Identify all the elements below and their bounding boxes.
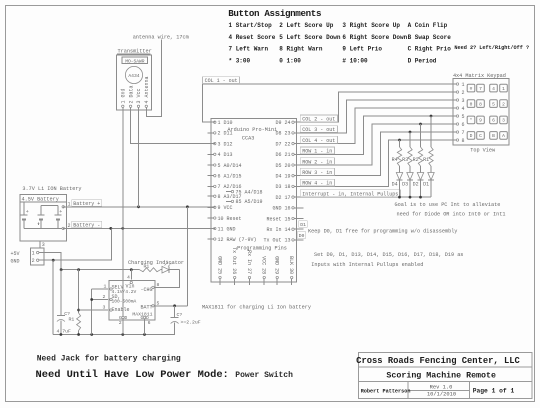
svg-text:4 Reset Score: 4 Reset Score xyxy=(229,34,276,41)
svg-text:D4 19: D4 19 xyxy=(275,174,290,180)
svg-text:2: 2 xyxy=(462,90,465,96)
svg-text:5: 5 xyxy=(462,114,465,120)
svg-text:2: 2 xyxy=(119,320,122,326)
svg-text:5: 5 xyxy=(157,300,160,306)
svg-text:1: 1 xyxy=(462,82,465,88)
svg-text:COL 2 - out: COL 2 - out xyxy=(302,117,335,123)
svg-text:BLK 30: BLK 30 xyxy=(288,256,294,274)
svg-text:8: 8 xyxy=(157,282,160,288)
svg-text:ROW 4 - in: ROW 4 - in xyxy=(302,181,332,187)
svg-text:MO-SAWR: MO-SAWR xyxy=(125,58,145,64)
svg-text:4: 4 xyxy=(127,275,130,281)
svg-text:Scoring Machine Remote: Scoring Machine Remote xyxy=(386,371,496,381)
svg-text:D2: D2 xyxy=(413,182,419,188)
svg-text:1 D10: 1 D10 xyxy=(218,120,233,126)
svg-text:Keep D0, D1 free for programmi: Keep D0, D1 free for programming w/o dis… xyxy=(308,229,457,235)
svg-text:5: 5 xyxy=(492,101,495,107)
svg-text:COL 1 - out: COL 1 - out xyxy=(205,78,238,84)
svg-text:D: D xyxy=(470,133,473,139)
svg-text:+5V: +5V xyxy=(11,251,20,257)
svg-text:Set D0, D1, D13, D14, D15, D16: Set D0, D1, D13, D14, D15, D16, D17, D18… xyxy=(314,252,463,258)
svg-text:CCA3: CCA3 xyxy=(242,136,254,142)
svg-text:2 D11: 2 D11 xyxy=(218,131,233,137)
svg-text:5 A0/D14: 5 A0/D14 xyxy=(218,163,242,169)
svg-text:Page 1 of 1: Page 1 of 1 xyxy=(473,387,515,394)
svg-text:3 Right Score Up: 3 Right Score Up xyxy=(342,22,400,29)
svg-text:A: A xyxy=(502,133,505,139)
svg-text:D2 17: D2 17 xyxy=(275,195,290,201)
svg-text:3: 3 xyxy=(103,305,106,311)
svg-text:6: 6 xyxy=(462,122,465,128)
svg-text:B: B xyxy=(492,133,495,139)
svg-text:Enable: Enable xyxy=(112,307,130,313)
svg-text:need for Diode OR into Int0 or: need for Diode OR into Int0 or Int1 xyxy=(397,212,506,218)
svg-text:D4: D4 xyxy=(392,182,398,188)
svg-text:4 D13: 4 D13 xyxy=(218,152,233,158)
svg-text:COL 3 - out: COL 3 - out xyxy=(302,127,335,133)
svg-text:D5 20: D5 20 xyxy=(275,163,290,169)
svg-text:Tx Out 13: Tx Out 13 xyxy=(263,238,290,244)
svg-text:D1: D1 xyxy=(300,222,306,228)
svg-text:C?: C? xyxy=(177,312,183,318)
svg-text:Rx In 14: Rx In 14 xyxy=(266,227,290,233)
svg-text:Rx In 27: Rx In 27 xyxy=(246,250,252,274)
svg-text:6: 6 xyxy=(148,320,151,326)
svg-text:Goal is to use PC Int to allev: Goal is to use PC Int to alleviate xyxy=(395,202,501,208)
svg-text:1 Start/Stop: 1 Start/Stop xyxy=(229,22,273,29)
svg-text:8: 8 xyxy=(479,101,482,107)
svg-text:R1: R1 xyxy=(423,157,429,163)
svg-text:* 3:00: * 3:00 xyxy=(229,57,251,64)
svg-text:C: C xyxy=(479,133,482,139)
svg-text:2: 2 xyxy=(103,294,106,300)
svg-text:GND 16: GND 16 xyxy=(272,206,290,212)
svg-text:D3: D3 xyxy=(402,182,408,188)
svg-text:Rev 1.0: Rev 1.0 xyxy=(430,385,453,391)
svg-text:6 A1/D15: 6 A1/D15 xyxy=(218,174,242,180)
svg-text:0: 0 xyxy=(470,101,473,107)
svg-text:1: 1 xyxy=(502,86,505,92)
svg-text:Need Jack for battery charging: Need Jack for battery charging xyxy=(37,354,181,363)
svg-text:D8 23: D8 23 xyxy=(275,131,290,137)
svg-text:3: 3 xyxy=(502,118,505,124)
svg-text:9 Left Prio: 9 Left Prio xyxy=(342,46,382,53)
svg-text:4.7uF: 4.7uF xyxy=(57,329,72,335)
svg-text:ROW 1 - in: ROW 1 - in xyxy=(302,149,332,155)
svg-text:antenna wire, 17cm: antenna wire, 17cm xyxy=(133,35,189,41)
svg-text:C?: C? xyxy=(64,311,70,317)
svg-text:75 A4/D18: 75 A4/D18 xyxy=(236,189,263,195)
svg-text:# 10:00: # 10:00 xyxy=(342,57,368,64)
svg-text:7 Left Warn: 7 Left Warn xyxy=(229,46,269,53)
svg-text:C Right Prio: C Right Prio xyxy=(408,46,452,53)
svg-text:Vin: Vin xyxy=(126,284,135,290)
svg-text:R1: R1 xyxy=(69,317,75,323)
svg-text:3: 3 xyxy=(42,242,45,248)
svg-text:Charging Indicator: Charging Indicator xyxy=(128,260,184,266)
svg-text:2: 2 xyxy=(32,258,35,264)
svg-text:Battery +: Battery + xyxy=(73,201,100,207)
svg-text:3.7V Li ION Battery: 3.7V Li ION Battery xyxy=(22,186,81,192)
svg-text:Arduino Pro-Mini: Arduino Pro-Mini xyxy=(227,127,277,133)
svg-text:D3 18: D3 18 xyxy=(275,184,290,190)
svg-text:MAX1811 for charging Li Ion ba: MAX1811 for charging Li Ion battery xyxy=(202,305,311,311)
svg-text:2 Left Score Up: 2 Left Score Up xyxy=(279,22,333,29)
svg-text:R3: R3 xyxy=(402,157,408,163)
svg-text:D9 24: D9 24 xyxy=(275,120,290,126)
svg-text:Battery -: Battery - xyxy=(73,223,100,229)
svg-text:1: 1 xyxy=(32,251,35,257)
svg-text:ROW 2 - in: ROW 2 - in xyxy=(302,159,332,165)
svg-text:B Swap Score: B Swap Score xyxy=(408,34,452,41)
svg-text:4: 4 xyxy=(492,86,495,92)
svg-text:GND: GND xyxy=(11,258,20,264)
svg-text:9: 9 xyxy=(479,118,482,124)
svg-text:ROW 3 - in: ROW 3 - in xyxy=(302,170,332,176)
svg-text:11 GND: 11 GND xyxy=(218,226,236,232)
svg-text:Top View: Top View xyxy=(470,148,496,154)
svg-text:>=2.2uF: >=2.2uF xyxy=(181,320,201,326)
svg-text:100-500mA: 100-500mA xyxy=(112,299,137,305)
svg-text:Power Switch: Power Switch xyxy=(235,371,293,380)
svg-text:3 Vcc: 3 Vcc xyxy=(136,88,142,103)
svg-text:VCC 28: VCC 28 xyxy=(261,256,267,274)
svg-text:Need Until Have Low Power Mode: Need Until Have Low Power Mode: xyxy=(36,369,229,381)
svg-text:Need 2? Left/Right/Off ?: Need 2? Left/Right/Off ? xyxy=(454,45,529,51)
svg-text:D0: D0 xyxy=(299,233,305,239)
svg-text:Robert Patterson: Robert Patterson xyxy=(361,389,411,395)
svg-text:Interrupt - in, Internal Pullu: Interrupt - in, Internal Pullups xyxy=(302,191,398,197)
svg-text:Reset 15: Reset 15 xyxy=(266,216,290,222)
svg-text:D6 21: D6 21 xyxy=(275,152,290,158)
svg-text:Button Assignments: Button Assignments xyxy=(228,8,321,19)
svg-text:A434: A434 xyxy=(128,73,139,79)
svg-text:2 Data: 2 Data xyxy=(128,85,134,103)
svg-text:12 RAW (7-9V): 12 RAW (7-9V) xyxy=(218,237,257,243)
svg-text:D1: D1 xyxy=(423,182,429,188)
svg-text:Inputs with Internal Pullups e: Inputs with Internal Pullups enabled xyxy=(311,262,423,268)
svg-text:8: 8 xyxy=(462,138,465,144)
svg-text:-CHG: -CHG xyxy=(140,287,152,293)
svg-text:1 Gnd: 1 Gnd xyxy=(121,88,127,103)
svg-text:COL 4 - out: COL 4 - out xyxy=(302,138,335,144)
svg-text:Cross Roads Fencing Center, LL: Cross Roads Fencing Center, LLC xyxy=(356,356,520,366)
svg-text:7: 7 xyxy=(462,130,465,136)
svg-text:8 Right Warn: 8 Right Warn xyxy=(279,46,323,53)
svg-text:R2: R2 xyxy=(413,157,419,163)
svg-text:#: # xyxy=(470,86,473,92)
svg-text:10/1/2010: 10/1/2010 xyxy=(427,392,456,398)
svg-text:3: 3 xyxy=(462,98,465,104)
svg-text:4: 4 xyxy=(462,106,465,112)
svg-text:R1: R1 xyxy=(144,263,150,269)
svg-text:1: 1 xyxy=(104,284,107,290)
svg-text:6: 6 xyxy=(492,118,495,124)
svg-text:BATT: BATT xyxy=(140,304,152,310)
svg-text:Programming Pins: Programming Pins xyxy=(237,245,287,251)
svg-text:D7 22: D7 22 xyxy=(275,141,290,147)
svg-text:10 Reset: 10 Reset xyxy=(218,216,242,222)
svg-text:9 VCC: 9 VCC xyxy=(218,205,233,211)
svg-text:2: 2 xyxy=(502,101,505,107)
svg-text:4.5V Battery: 4.5V Battery xyxy=(22,196,59,202)
svg-text:3 D12: 3 D12 xyxy=(218,141,233,147)
svg-text:5 Left Score Down: 5 Left Score Down xyxy=(279,34,341,41)
svg-text:Tx Out 26: Tx Out 26 xyxy=(231,247,237,274)
svg-text:GND 29: GND 29 xyxy=(274,256,280,274)
svg-text:6 Right Score Down: 6 Right Score Down xyxy=(342,34,407,41)
svg-text:*: * xyxy=(470,118,473,124)
svg-text:85 A5/D19: 85 A5/D19 xyxy=(236,199,263,205)
svg-text:4 Antenna: 4 Antenna xyxy=(144,76,150,103)
svg-text:7: 7 xyxy=(479,86,482,92)
svg-text:D Period: D Period xyxy=(408,57,437,64)
svg-text:GND 25: GND 25 xyxy=(216,256,222,274)
svg-text:R4: R4 xyxy=(392,157,398,163)
svg-text:0 1:00: 0 1:00 xyxy=(279,57,301,64)
svg-text:A Coin Flip: A Coin Flip xyxy=(408,22,448,29)
